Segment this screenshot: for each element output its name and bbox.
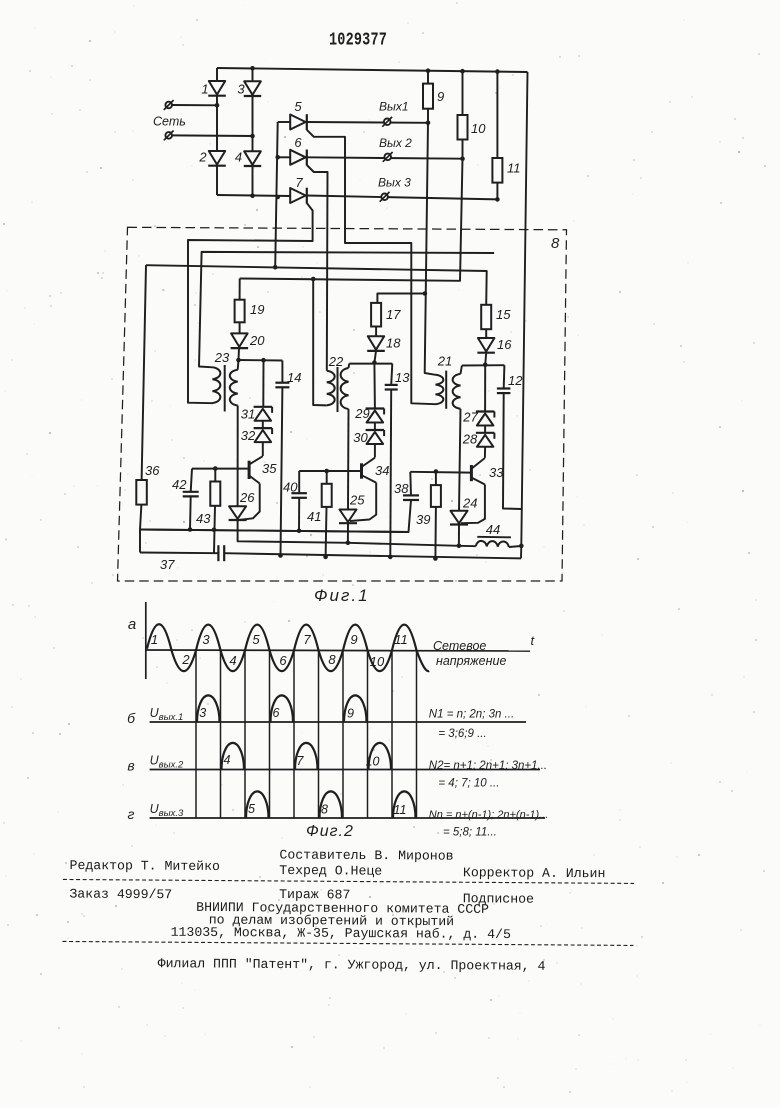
resistor 11 column <box>496 72 498 158</box>
thyristor 7 gate wire <box>188 203 313 403</box>
svg-text:10: 10 <box>471 121 486 136</box>
diode 2 <box>209 151 225 165</box>
transformer 21 secondary winding <box>453 374 461 409</box>
svg-text:8: 8 <box>321 803 328 817</box>
svg-text:34: 34 <box>375 463 389 478</box>
transformer 22 secondary winding <box>341 368 349 409</box>
wire zener 30 to collector Q34 <box>374 444 376 458</box>
svg-text:a: a <box>128 616 136 633</box>
diode 3 <box>244 81 261 95</box>
capacitor 14 column <box>281 361 283 383</box>
svg-text:5: 5 <box>252 632 260 647</box>
output terminal Вых3 <box>381 194 388 201</box>
transistor 33 <box>470 465 473 481</box>
wire H4: Вых2 / resistor 19 / transformer 22 primary bottom <box>240 159 463 281</box>
svg-text:27: 27 <box>462 410 478 425</box>
resistor 19 <box>235 300 245 323</box>
wire emitter Q35 to diode 26 cathode <box>240 484 260 520</box>
diode 18 <box>368 336 384 350</box>
svg-text:23: 23 <box>214 350 230 365</box>
resistor 36 <box>136 480 147 505</box>
wire zener 28 to collector Q33 <box>484 447 486 458</box>
wire tap to resistor 17 <box>377 294 425 303</box>
svg-text:4: 4 <box>229 653 236 668</box>
fig2 vertical grid lines <box>196 650 417 818</box>
svg-text:11: 11 <box>507 161 521 176</box>
svg-text:10: 10 <box>366 755 380 769</box>
zener 30 <box>366 429 385 431</box>
diode 25 <box>340 510 357 523</box>
junction dots routing and blocks <box>213 265 488 474</box>
node wire block1 (cathode D20 / secondary top / zeners / cap 14) <box>239 359 283 362</box>
svg-text:8: 8 <box>551 235 560 252</box>
svg-text:3: 3 <box>202 632 210 647</box>
wire rail1 <box>140 530 409 533</box>
svg-text:Редактор Т. Митейко: Редактор Т. Митейко <box>70 858 221 874</box>
transistor 34 <box>360 463 363 478</box>
svg-text:13: 13 <box>395 370 410 385</box>
wire zener chain 29/30 <box>373 363 376 409</box>
svg-text:18: 18 <box>386 336 401 351</box>
svg-text:5: 5 <box>294 99 302 114</box>
dashed rule 2 <box>62 941 633 945</box>
capacitor 12 column <box>503 365 506 388</box>
svg-text:Составитель В. Миронов: Составитель В. Миронов <box>279 847 453 863</box>
node wire block2 <box>349 363 392 365</box>
svg-text:20: 20 <box>249 333 265 348</box>
resistor 15 <box>481 305 491 329</box>
junction dots bottom rails <box>188 527 524 561</box>
wire H4 drop to transformer 22 primary bottom <box>313 279 327 405</box>
svg-text:7: 7 <box>303 632 311 647</box>
diode 4 <box>244 151 261 165</box>
svg-text:= 5;8; 11...: = 5;8; 11... <box>443 827 497 839</box>
wire diode 26 to rail2 <box>238 520 348 543</box>
fig2 vertical axis <box>145 602 147 679</box>
svg-text:1: 1 <box>151 632 158 647</box>
wire Вых1 column down to transformer 21 primary top <box>425 123 436 375</box>
wire emitter Q34 to diode 25 cathode <box>350 483 376 521</box>
svg-text:15: 15 <box>496 307 511 322</box>
svg-text:22: 22 <box>328 354 344 369</box>
svg-text:14: 14 <box>287 370 301 385</box>
transistor 35 <box>248 461 251 479</box>
svg-text:Фиг.2: Фиг.2 <box>306 823 354 840</box>
transformer 23 secondary winding <box>230 370 238 406</box>
svg-text:6: 6 <box>273 706 280 720</box>
wire zener 32 to collector Q35 <box>262 442 264 456</box>
svg-text:26: 26 <box>239 490 255 505</box>
transformer 23 core <box>224 365 226 412</box>
svg-text:5: 5 <box>248 802 255 816</box>
mains sine wave <box>147 624 429 671</box>
svg-text:7: 7 <box>295 175 303 190</box>
row в output pulses <box>222 743 245 770</box>
wire terminal1 to bridge <box>172 104 217 106</box>
svg-text:36: 36 <box>145 463 160 478</box>
patent number title 1029377 <box>329 28 387 50</box>
svg-text:3: 3 <box>199 706 206 720</box>
svg-text:Вых1: Вых1 <box>379 100 409 114</box>
svg-text:11: 11 <box>394 803 407 817</box>
capacitor 37 <box>217 545 219 561</box>
node wire block3 <box>462 364 505 366</box>
wire base Q34 <box>299 470 361 472</box>
svg-text:4: 4 <box>235 150 242 165</box>
resistor 43 <box>210 482 220 506</box>
svg-text:28: 28 <box>462 432 478 447</box>
svg-text:Техред О.Неце: Техред О.Неце <box>279 863 382 879</box>
diode 20 <box>231 333 248 347</box>
row г output pulses <box>246 791 269 818</box>
waveform row б baseline <box>150 721 526 723</box>
diode D1 column wires <box>216 68 218 81</box>
fig2 time axis <box>146 650 530 651</box>
output terminal Вых2 <box>384 154 391 161</box>
thyristor 6 <box>290 150 305 165</box>
resistor 41 column <box>326 471 328 484</box>
svg-text:6: 6 <box>294 135 302 150</box>
resistor 41 <box>322 484 332 507</box>
imprint text block <box>62 846 634 974</box>
svg-text:21: 21 <box>437 354 452 369</box>
svg-text:7: 7 <box>297 754 305 768</box>
svg-text:32: 32 <box>241 428 256 443</box>
thyristor 7 <box>290 188 305 203</box>
capacitor 42 column <box>191 469 192 492</box>
svg-text:35: 35 <box>262 461 277 476</box>
svg-text:43: 43 <box>196 511 211 526</box>
capacitor 40 column <box>298 471 300 493</box>
dashed enclosure 8 <box>118 227 567 581</box>
wire output 1 net <box>307 121 428 124</box>
zener 29 <box>366 407 385 409</box>
resistor 9 column <box>427 71 429 84</box>
wire secondary 21 bottom to diode 24 <box>459 409 461 511</box>
transformer 22 primary winding <box>327 371 335 406</box>
svg-text:11: 11 <box>394 632 408 647</box>
thyristor 6 gate wire <box>307 165 328 371</box>
svg-text:б: б <box>127 710 136 726</box>
wire output 2 net <box>307 157 463 158</box>
svg-text:16: 16 <box>497 337 512 352</box>
svg-text:Корректор А. Ильин: Корректор А. Ильин <box>463 865 606 881</box>
resistor 10 <box>458 115 468 140</box>
svg-text:9: 9 <box>347 707 354 721</box>
wire top positive rail <box>217 68 528 72</box>
wire H2: Вых3 to transformer 23 primary top <box>199 252 494 367</box>
svg-text:19: 19 <box>250 302 264 317</box>
resistor 17 <box>371 303 381 327</box>
diode 24 <box>451 511 468 524</box>
svg-text:Заказ 4999/57: Заказ 4999/57 <box>69 886 172 902</box>
svg-text:40: 40 <box>283 480 298 495</box>
svg-text:8: 8 <box>328 652 336 667</box>
svg-text:= 4; 7; 10 ...: = 4; 7; 10 ... <box>438 778 499 790</box>
svg-text:9: 9 <box>437 89 444 104</box>
svg-text:24: 24 <box>462 496 477 511</box>
svg-text:Nn = n+(n-1); 2n+(n-1)...: Nn = n+(n-1); 2n+(n-1)... <box>429 809 549 821</box>
svg-text:37: 37 <box>160 557 175 572</box>
wire secondary 23 bottom to diode 26 <box>237 406 239 507</box>
capacitor 38 column <box>409 472 412 496</box>
svg-text:N1 = n; 2n; 3n ...: N1 = n; 2n; 3n ... <box>429 709 514 721</box>
svg-text:113035, Москва, Ж-35, Раушская: 113035, Москва, Ж-35, Раушская наб., д. … <box>171 925 511 942</box>
wire thyristor anode rail <box>275 122 278 267</box>
diode D3/D4 column wires <box>252 68 254 81</box>
resistor 11 <box>492 158 502 183</box>
wire emitter Q33 to diode 24 cathode <box>461 485 485 524</box>
transformer 21 primary winding <box>436 375 444 404</box>
diode 16 <box>478 338 495 352</box>
resistor 39 <box>431 485 441 507</box>
capacitor 13 column <box>391 364 392 385</box>
svg-text:31: 31 <box>241 407 255 422</box>
transformer 22 core <box>337 367 339 412</box>
zener 32 <box>254 427 273 429</box>
svg-text:N2= n+1; 2n+1; 3n+1...: N2= n+1; 2n+1; 3n+1... <box>429 760 547 772</box>
junction dots top section <box>215 66 500 202</box>
row б output pulses <box>197 695 220 722</box>
diode 26 <box>229 506 246 519</box>
waveform row в baseline <box>150 769 540 771</box>
svg-text:в: в <box>127 758 134 774</box>
svg-text:напряжение: напряжение <box>436 654 506 668</box>
svg-text:42: 42 <box>172 477 187 492</box>
svg-text:1029377: 1029377 <box>329 28 387 50</box>
wire base Q33 <box>410 471 471 474</box>
thyristor 5 gate wire <box>307 130 436 404</box>
svg-text:3: 3 <box>237 82 245 97</box>
resistor 10 column <box>462 71 464 115</box>
svg-text:33: 33 <box>489 465 504 480</box>
svg-text:Вых 3: Вых 3 <box>378 176 411 190</box>
svg-text:17: 17 <box>386 307 401 322</box>
wire base Q35 <box>192 468 249 470</box>
svg-text:Сеть: Сеть <box>153 115 186 129</box>
wire rail2 (commutation) <box>348 543 459 546</box>
svg-text:Сетевое: Сетевое <box>433 639 486 653</box>
svg-text:Вых 2: Вых 2 <box>379 136 412 150</box>
svg-text:2: 2 <box>198 150 207 165</box>
svg-text:30: 30 <box>353 430 368 445</box>
svg-text:Фиг.1: Фиг.1 <box>314 586 370 605</box>
zener 28 <box>476 432 495 434</box>
resistor 9 <box>423 84 433 109</box>
thyristor 5 <box>290 115 305 130</box>
capacitor 42 <box>183 491 199 493</box>
wire diode 24 to rail2 <box>458 524 460 546</box>
svg-text:29: 29 <box>354 406 369 421</box>
dashed rule 1 <box>63 879 634 883</box>
wire H3 left drop to resistor 36 <box>142 265 146 480</box>
svg-text:41: 41 <box>307 509 321 524</box>
wire terminal2 to bridge <box>172 134 252 137</box>
svg-text:= 3;6;9 ...: = 3;6;9 ... <box>438 728 486 740</box>
sine half-cycle numbers <box>151 632 408 669</box>
svg-text:1: 1 <box>201 82 208 97</box>
svg-text:9: 9 <box>350 632 357 647</box>
wire rail3 (lower common) <box>140 552 218 555</box>
capacitor 40 <box>291 492 307 494</box>
resistor 39 column <box>435 472 437 486</box>
resistor 43 column <box>214 469 216 482</box>
capacitor 38 <box>403 494 419 496</box>
output terminal Вых1 <box>384 119 391 126</box>
waveform row г baseline <box>150 817 545 819</box>
diode 1 <box>209 81 225 95</box>
capacitor 12 <box>497 387 511 389</box>
wire zener chain 27/28 <box>484 365 486 411</box>
wire output 3 net <box>307 196 498 200</box>
wire right rail (to commutation bottom) <box>521 72 527 546</box>
svg-text:4: 4 <box>224 753 231 767</box>
inductor 44 <box>476 541 509 547</box>
mains terminal 1 <box>165 102 172 109</box>
mains terminal 2 <box>165 132 172 139</box>
svg-text:44: 44 <box>486 522 500 537</box>
svg-text:12: 12 <box>508 373 523 388</box>
wire bridge bottom output <box>217 195 290 196</box>
transformer 21 core <box>445 371 447 409</box>
svg-text:39: 39 <box>416 512 430 527</box>
wire zener chain 31/32 <box>262 360 264 406</box>
svg-text:25: 25 <box>349 493 365 508</box>
svg-text:Филиал ППП "Патент", г. Ужгоро: Филиал ППП "Патент", г. Ужгород, ул. Про… <box>158 956 546 974</box>
zener 31 <box>254 406 273 408</box>
svg-text:г: г <box>128 806 135 822</box>
transformer 23 primary winding <box>213 367 221 403</box>
svg-text:6: 6 <box>279 653 287 668</box>
zener 27 <box>476 410 495 412</box>
svg-text:38: 38 <box>394 481 409 496</box>
wire H3: anode rail to resistor 15 <box>146 265 487 305</box>
svg-text:10: 10 <box>370 654 385 669</box>
capacitor 13 <box>385 384 398 386</box>
wire diode 25 to rail2 <box>347 522 349 543</box>
wire secondary 22 bottom to diode 25 <box>347 409 350 510</box>
svg-text:2: 2 <box>181 652 190 667</box>
wire resistor 36 to rail1 left end <box>140 505 141 530</box>
capacitor 14 <box>275 382 289 384</box>
